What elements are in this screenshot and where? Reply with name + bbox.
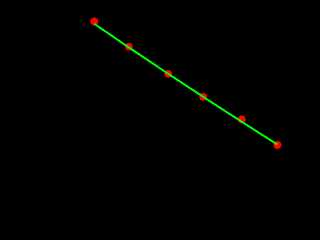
fit line [94, 24, 277, 145]
data point 4 [199, 93, 207, 101]
data point 1 [90, 18, 98, 26]
data point 2 [125, 43, 133, 51]
data point 6 [273, 141, 281, 149]
data point 5 [238, 115, 246, 123]
data point 3 [164, 70, 172, 78]
